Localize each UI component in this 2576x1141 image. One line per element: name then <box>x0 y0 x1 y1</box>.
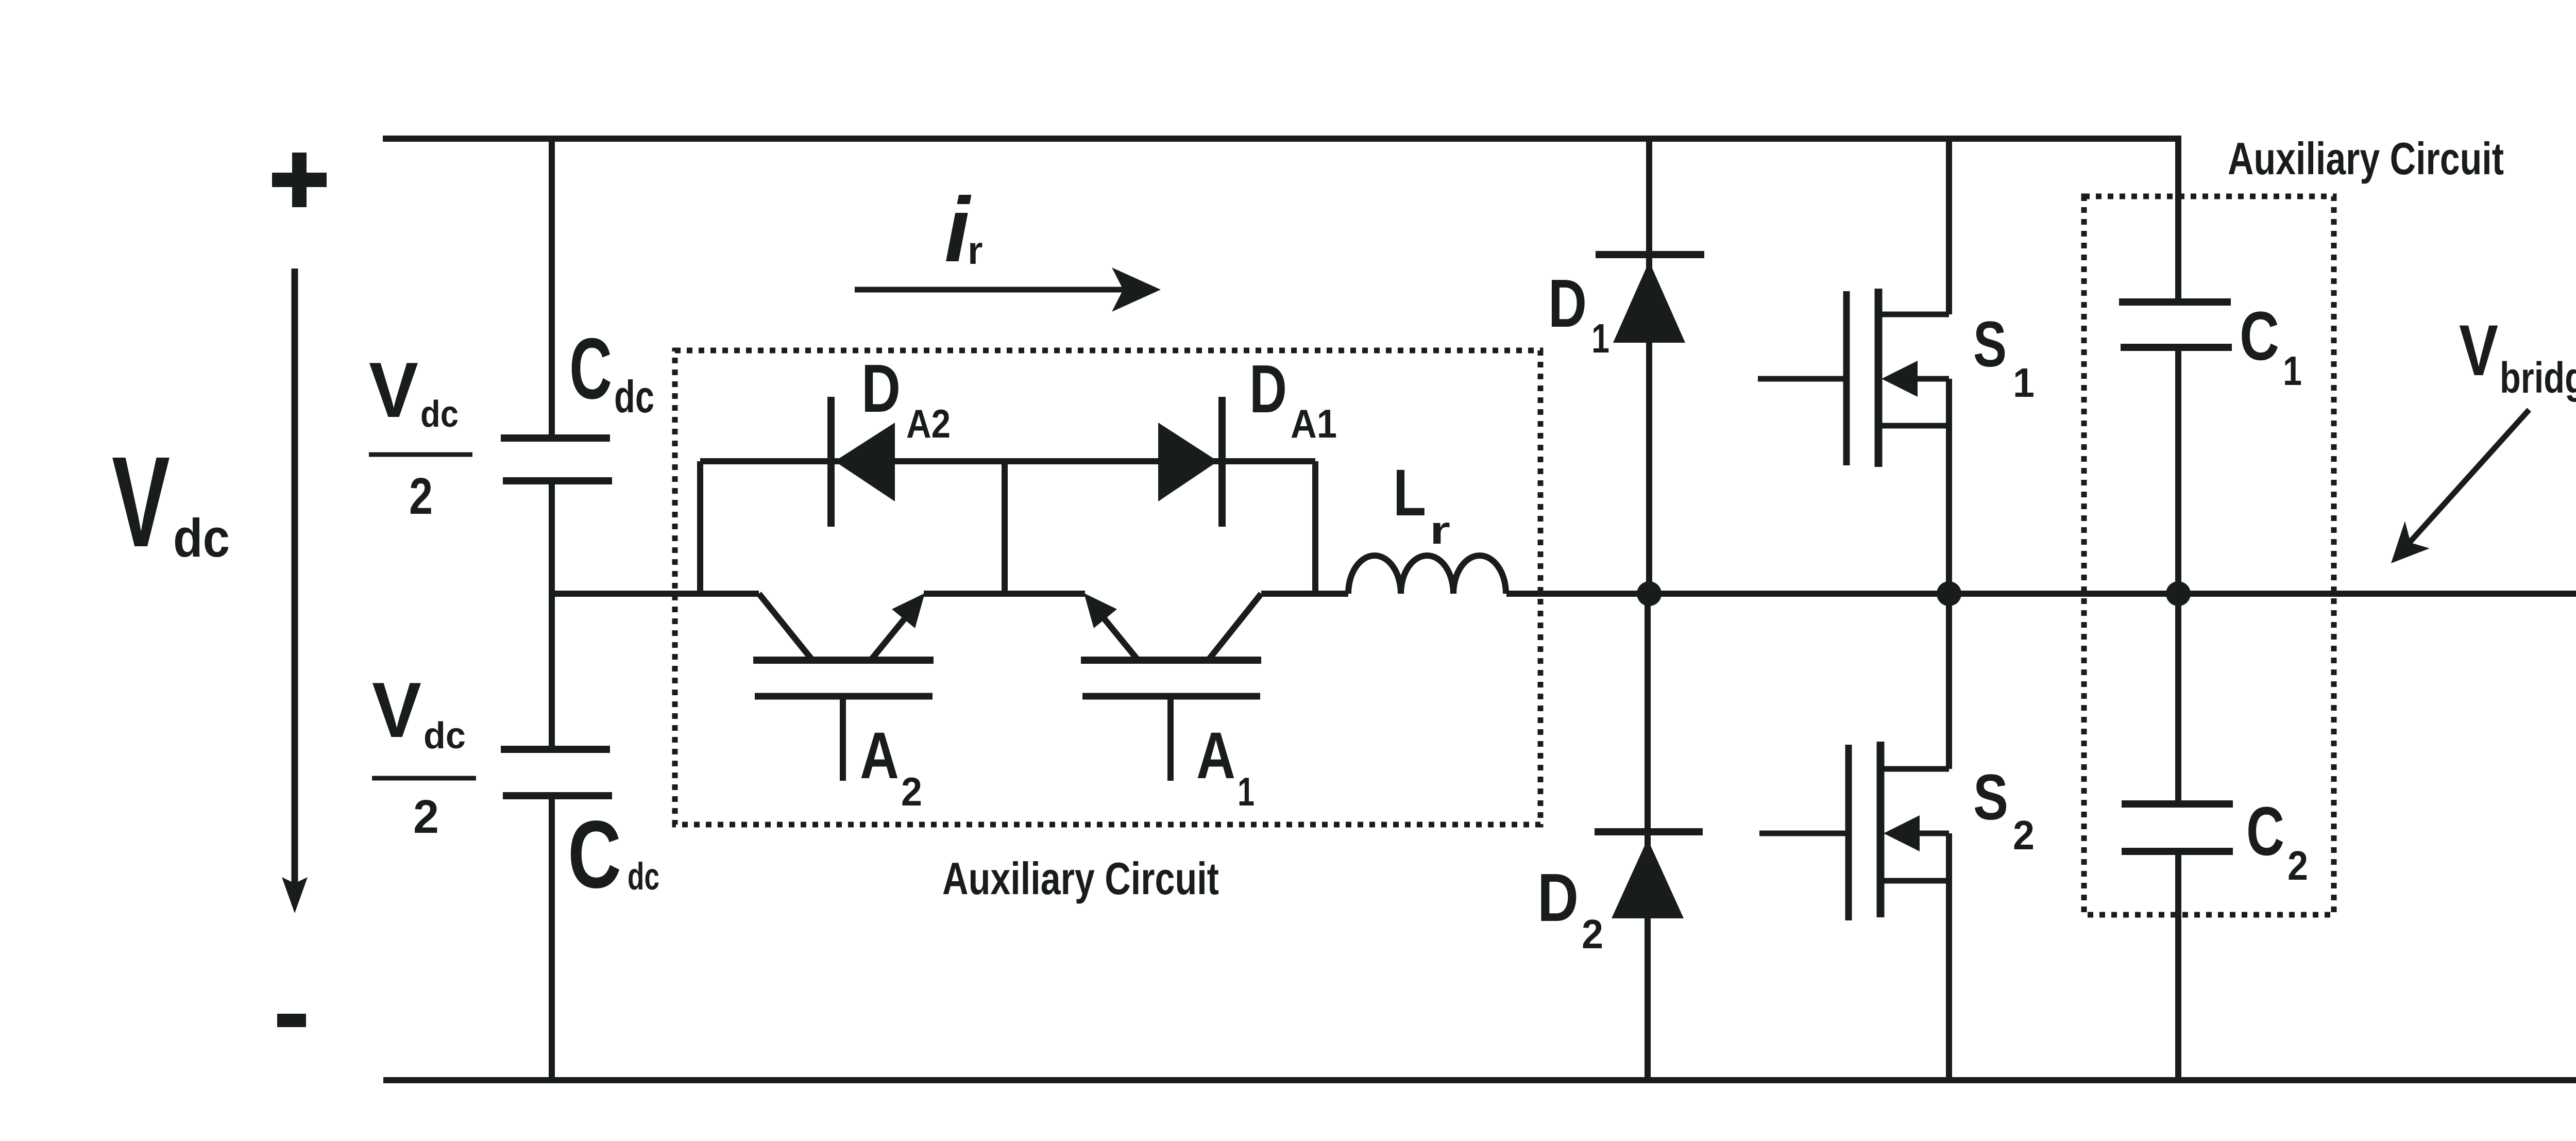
svg-text:A1: A1 <box>1291 401 1337 446</box>
svg-text:C: C <box>569 320 612 417</box>
svg-text:V: V <box>372 666 421 754</box>
svg-text:Auxiliary Circuit: Auxiliary Circuit <box>2228 133 2504 184</box>
svg-text:dc: dc <box>628 855 659 898</box>
svg-text:r: r <box>1430 509 1450 552</box>
svg-text:r: r <box>968 229 983 273</box>
svg-text:2: 2 <box>901 769 922 814</box>
svg-text:Auxiliary Circuit: Auxiliary Circuit <box>942 853 1219 904</box>
svg-text:C: C <box>2240 298 2279 375</box>
svg-text:L: L <box>1393 456 1426 530</box>
svg-text:dc: dc <box>173 508 230 568</box>
svg-text:V: V <box>369 346 418 434</box>
svg-text:D: D <box>1537 860 1579 935</box>
svg-text:S: S <box>1973 762 2008 833</box>
svg-text:1: 1 <box>2013 360 2035 406</box>
svg-text:2: 2 <box>2013 812 2035 858</box>
svg-text:A: A <box>1196 719 1235 793</box>
svg-text:S: S <box>1973 309 2007 380</box>
svg-text:A2: A2 <box>906 401 951 446</box>
svg-text:1: 1 <box>1238 769 1255 814</box>
svg-text:bridge: bridge <box>2500 354 2576 402</box>
svg-text:1: 1 <box>1591 315 1609 361</box>
svg-text:2: 2 <box>1582 911 1603 957</box>
svg-text:C: C <box>2246 793 2284 870</box>
svg-text:D: D <box>1548 265 1587 341</box>
svg-text:A: A <box>860 719 899 793</box>
svg-text:D: D <box>861 350 901 426</box>
svg-text:V: V <box>112 430 170 574</box>
svg-text:C: C <box>568 801 621 908</box>
svg-text:dc: dc <box>614 371 654 422</box>
svg-text:dc: dc <box>420 394 459 435</box>
svg-text:2: 2 <box>413 791 439 843</box>
svg-text:2: 2 <box>2287 843 2308 888</box>
svg-text:V: V <box>2459 310 2498 391</box>
svg-text:2: 2 <box>409 467 433 525</box>
svg-text:D: D <box>1249 351 1287 427</box>
svg-text:dc: dc <box>423 715 466 757</box>
svg-text:1: 1 <box>2283 348 2302 394</box>
